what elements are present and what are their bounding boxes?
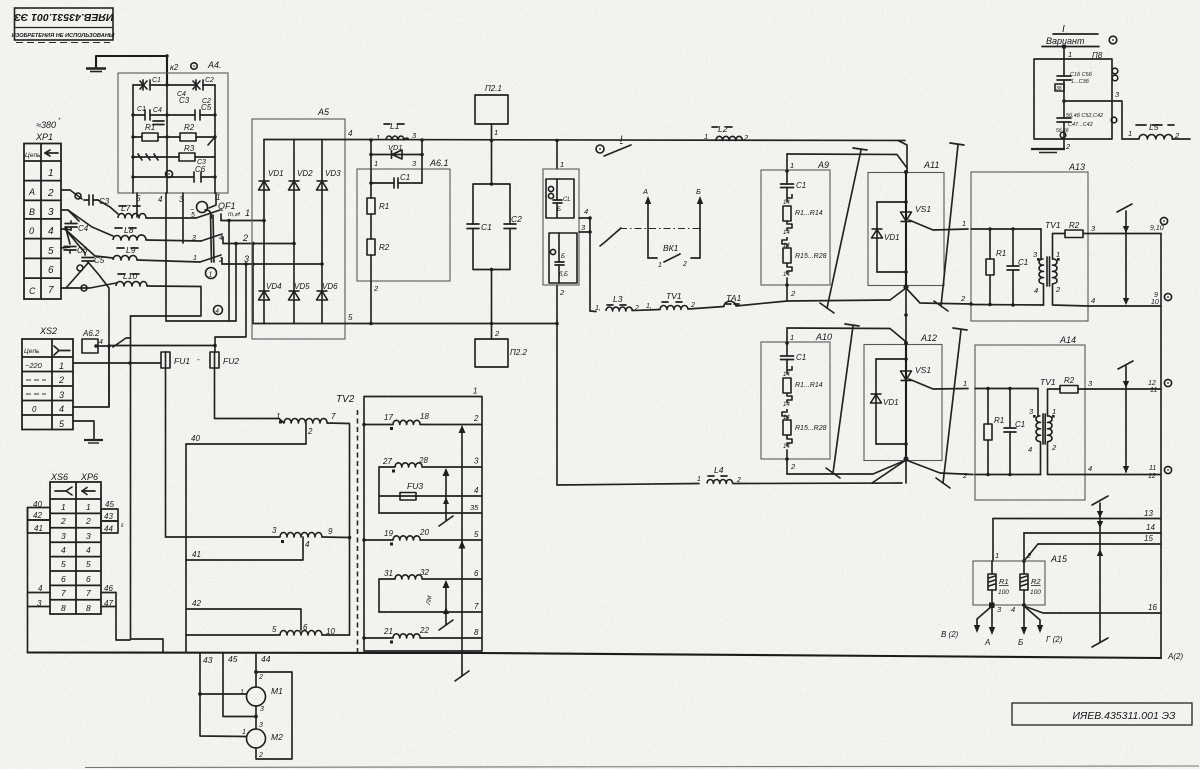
common vertical wire x=186 [185,444,187,653]
right outer wire [116,593,130,641]
svg-text:VD1: VD1 [388,143,403,152]
tap arrow (A15 zone) [1092,496,1108,647]
TV2 core dashed [357,410,359,652]
svg-text:3: 3 [192,235,196,242]
top bus corner into A11 [898,141,907,173]
svg-text:44: 44 [261,654,271,664]
svg-text:VD2: VD2 [297,169,313,178]
A5 rails and columns [264,140,347,324]
resistor R1...R14 (A9) [783,206,791,221]
svg-text:А15: А15 [1050,554,1068,564]
svg-text:10: 10 [1151,299,1159,306]
wires QF1 poles down to fuses [166,221,265,353]
svg-text:R1: R1 [145,123,155,132]
svg-text:С4: С4 [78,224,89,233]
variant mark near bus [596,145,604,153]
svg-text:44: 44 [104,525,113,534]
fuse FU1 [161,352,170,368]
resistor R1 (A14) [987,389,989,425]
svg-text:Б: Б [696,187,701,196]
svg-text:А9: А9 [817,160,829,170]
resistor R3 (A4) [167,153,215,161]
svg-text:1: 1 [1128,129,1132,138]
svg-text:2: 2 [258,674,263,681]
fuse FU2 [210,352,219,368]
svg-text:16: 16 [1148,603,1157,612]
svg-text:1: 1 [245,208,250,218]
ground (P8) [1063,139,1065,149]
svg-text:1: 1 [376,133,380,142]
svg-text:3: 3 [59,390,64,400]
wire XP1 pin3 [61,210,79,221]
wire pin3 to L8 [68,210,113,236]
svg-text:R15...R28: R15...R28 [795,425,827,432]
dc- bus to the right [347,323,557,325]
wire XP1 pin2 [61,190,82,199]
resistor R2 (A13) [1053,284,1089,306]
diagonal up to A11 cathode junction [890,288,906,300]
svg-text:С5: С5 [94,256,105,265]
wire L8 to QF1 pole2 [146,240,201,241]
svg-text:ТV1: ТV1 [1045,220,1061,230]
A14 pin1 rail [975,388,1038,390]
svg-text:Б: Б [561,254,565,260]
svg-text:VD1: VD1 [883,398,899,407]
resistor R1 (A6.1) [367,198,375,214]
svg-text:3: 3 [86,531,91,541]
capacitor C6 (A4 bottom) [133,172,215,182]
svg-text:3: 3 [474,457,479,466]
svg-text:С47...С42: С47...С42 [1068,122,1093,128]
svg-text:14: 14 [783,230,790,236]
wire 130 vertical down to bus [131,316,164,653]
top link A9 to A11 [787,154,907,168]
svg-text:14: 14 [783,444,790,450]
svg-text:2: 2 [85,516,91,526]
svg-text:1: 1 [995,551,999,560]
svg-text:2: 2 [373,284,379,293]
svg-text:2: 2 [242,233,248,243]
svg-text:VD1: VD1 [884,233,900,242]
capacitor C6 [64,247,76,254]
svg-text:31: 31 [384,569,393,578]
switch BK1 block [645,196,651,229]
svg-text:9: 9 [328,527,333,536]
svg-text:R2: R2 [1031,577,1041,586]
svg-text:А10: А10 [815,332,832,342]
svg-text:ИЯЕВ.435311.001 ЭЗ: ИЯЕВ.435311.001 ЭЗ [1073,710,1176,722]
svg-text:1: 1 [209,272,213,279]
A14 outputs [1085,388,1161,390]
svg-text:С1: С1 [481,222,492,232]
svg-text:5: 5 [191,212,195,219]
svg-text:1: 1 [1068,50,1072,59]
svg-text:45: 45 [105,500,114,509]
resistor R2 (A4) [167,133,215,145]
svg-text:4: 4 [1091,296,1095,305]
A10 pin1 + top link to A12 [786,328,788,356]
left long vertical x=557 [556,141,558,170]
svg-text:С2: С2 [511,214,522,224]
wire C3 to L7 [98,200,118,214]
circuit breaker QF1 [197,202,208,213]
tap arrow 1 (long, x=462) [455,425,469,681]
svg-text:1: 1 [276,412,280,421]
L4 bus link up to A12 cathode [872,460,906,483]
svg-text:2: 2 [1065,142,1071,151]
svg-text:100: 100 [1030,589,1041,596]
wire winding5 left lead [186,634,280,636]
node marker [75,193,81,199]
svg-text:14: 14 [783,200,790,206]
svg-text:R1: R1 [379,202,389,211]
svg-text:R2: R2 [379,243,390,252]
wire XS2 row5 to ground [73,421,94,439]
scan edge artifact (bottom) [85,766,1199,768]
tap arrow 2 (FU3, x=446) [439,468,453,526]
svg-text:41: 41 [34,524,43,533]
svg-text:VD6: VD6 [322,282,338,291]
svg-text:L8: L8 [124,225,134,235]
svg-text:4: 4 [1088,464,1092,473]
A4 capacitor row 2 (y=115) C1 C4 [133,110,215,120]
svg-text:4: 4 [158,195,163,204]
svg-text:L3: L3 [613,294,623,304]
svg-text:1...С3б: 1...С3б [1071,79,1090,85]
svg-text:R2: R2 [184,123,195,132]
svg-text:35: 35 [470,503,479,512]
svg-text:3: 3 [61,531,66,541]
svg-text:FU3: FU3 [407,481,423,491]
svg-text:L7: L7 [121,203,131,213]
A9 pin1 wire from top link [786,154,788,184]
wire M1-M2 link [255,706,257,729]
resistor R1 (A13) [989,229,991,259]
svg-text:R1: R1 [996,249,1006,258]
A4 pin stubs [137,193,216,321]
svg-text:2: 2 [1055,285,1061,294]
svg-text:5б,6б: 5б,6б [1056,128,1069,134]
svg-text:4: 4 [38,584,43,593]
capacitor block C1 C2 [491,141,493,185]
svg-text:8: 8 [61,603,66,613]
left outer wire to bus [27,508,29,653]
svg-text:С1: С1 [400,173,410,182]
svg-text:22: 22 [419,626,429,635]
svg-text:1: 1 [962,219,966,228]
motor M1 [247,687,266,706]
svg-text:R1: R1 [994,416,1004,425]
hook [787,263,792,274]
svg-text:3б: 3б [1056,86,1062,92]
svg-text:5: 5 [86,559,91,569]
svg-text:1: 1 [1056,250,1060,259]
svg-text:FU1: FU1 [174,356,190,366]
svg-text:4: 4 [1011,605,1015,614]
svg-text:3: 3 [259,722,263,729]
svg-text:6: 6 [86,574,91,584]
svg-text:43: 43 [203,655,213,665]
wire L9 to QF1 pole3 [137,260,200,262]
svg-text:ХР6: ХР6 [80,472,98,482]
top bus from A5 pin4 [345,140,905,141]
ground (top-left near A4) [86,56,167,72]
svg-text:2: 2 [1051,443,1057,452]
svg-text:С1: С1 [152,77,161,84]
svg-text:ВК1: ВК1 [663,243,679,253]
svg-text:2: 2 [790,289,796,298]
svg-text:15: 15 [1144,534,1153,543]
svg-text:4: 4 [59,404,64,414]
A4 hatched line [133,154,167,160]
A6.1 pin wires [371,140,422,198]
gate bus L3 TV1 TA1 [590,310,596,313]
svg-text:≈380: ≈380 [36,120,56,130]
svg-text:2: 2 [307,427,313,436]
svg-text:СL: СL [563,197,571,203]
A9 pin2 [786,278,788,301]
svg-text:2: 2 [258,752,263,759]
svg-text:14: 14 [783,372,790,378]
wire A6.2 to switch [98,345,109,347]
svg-text:1: 1 [790,333,794,342]
svg-text:4: 4 [219,235,223,242]
capacitor C1 (A14) [1009,389,1011,429]
wire XS2 row4 to A6.2 line [73,406,109,408]
svg-text:2: 2 [790,462,796,471]
wire stem into A4 (k2) [166,56,168,85]
svg-text:VD1: VD1 [268,169,284,178]
tie bar 1 [820,148,867,313]
svg-text:4: 4 [348,129,353,138]
svg-text:6: 6 [303,623,308,632]
svg-text:1: 1 [790,161,794,170]
wire L10 right end down [131,286,202,316]
svg-text:6: 6 [474,569,479,578]
title box [1012,703,1192,725]
svg-text:11: 11 [1150,387,1157,394]
svg-text:2: 2 [60,516,66,526]
block P2.2 [491,324,493,340]
svg-text:R2: R2 [1069,221,1080,230]
capacitor C4 [65,221,77,230]
resistor R1 (A15) 100 [991,561,993,574]
tie bar 4 [936,328,967,488]
svg-text:14: 14 [783,402,790,408]
A4 junction dots [131,54,216,178]
A15 pin3 outputs [989,603,995,609]
svg-text:А12: А12 [920,333,937,343]
svg-text:В (2): В (2) [941,630,959,639]
svg-text:FU2: FU2 [223,356,239,366]
svg-text:100: 100 [998,589,1009,596]
svg-text:С6: С6 [195,165,206,174]
upper sub-box [546,179,574,218]
phase input junction dots [262,219,324,266]
svg-text:А5: А5 [317,107,330,117]
wire XP1 pin7 [61,263,116,288]
svg-text:т,⇄: т,⇄ [228,211,241,218]
capacitor group C37...C42 [1057,101,1071,139]
svg-text:4: 4 [99,339,103,346]
svg-text:R1...R14: R1...R14 [795,210,823,217]
motor M2 [247,729,266,748]
svg-text:3: 3 [48,207,54,218]
svg-text:4: 4 [474,486,479,495]
svg-text:2: 2 [494,329,500,338]
svg-text:12: 12 [1148,380,1156,387]
svg-text:С1: С1 [796,181,806,190]
output labels 9,10 [1160,217,1167,224]
bottom main bus [28,653,1162,659]
svg-text:С4: С4 [153,107,162,114]
svg-text:1,: 1, [595,305,601,312]
svg-text:12: 12 [1148,473,1156,480]
svg-text:П2.1: П2.1 [485,84,502,93]
stub 42 [28,508,51,521]
svg-text:2: 2 [559,288,565,297]
svg-text:5б,4б С52,С42: 5б,4б С52,С42 [1066,113,1103,119]
capacitor group C1...C36 [1057,76,1071,101]
resistor R15...R28 (A9) [783,248,791,263]
svg-text:L4: L4 [714,465,724,475]
lower sub-box [549,233,577,283]
svg-text:А: А [642,187,648,196]
circled mark G [214,306,223,315]
stamp box top-left [12,8,115,43]
tie bar 2 [934,143,964,311]
svg-text:1: 1 [374,159,378,168]
svg-text:Г (2): Г (2) [1046,635,1063,644]
svg-text:1: 1 [473,387,477,396]
svg-text:9,10: 9,10 [1150,225,1164,232]
wire pin4 down to wire 41 [186,537,303,560]
A13 outputs [1088,233,1161,235]
svg-text:А: А [984,638,990,647]
svg-text:13: 13 [1144,509,1153,518]
svg-text:С6: С6 [77,246,88,255]
svg-text:L5: L5 [1149,122,1159,132]
svg-text:0: 0 [29,226,34,236]
capacitor C1 (A6.1) [371,178,422,188]
svg-text:5: 5 [474,530,479,539]
svg-text:L2: L2 [718,124,728,134]
cathode junction (A11) [903,284,908,289]
A14 pin2 rail [975,474,1041,476]
svg-text:42: 42 [33,511,42,520]
svg-text:2: 2 [962,471,968,480]
svg-text:14: 14 [1146,523,1155,532]
svg-text:М2: М2 [271,732,283,742]
L4 bus [557,484,699,486]
block P8 [1062,45,1066,49]
svg-text:45: 45 [228,654,238,664]
filter pins 4 and 3 [579,218,590,232]
svg-text:С3: С3 [179,96,190,105]
wire XP1 pin5 [61,247,70,248]
svg-text:5: 5 [61,559,66,569]
svg-text:21: 21 [383,627,393,636]
svg-text:Цепь: Цепь [24,348,40,355]
svg-text:С1: С1 [1015,420,1025,429]
capacitor C3 [84,195,98,205]
svg-text:1: 1 [560,160,564,169]
svg-text:1: 1 [658,262,662,269]
svg-text:ИЯЕВ.43531.001 ЭЗ: ИЯЕВ.43531.001 ЭЗ [14,11,114,23]
P8 side marks [1112,68,1118,74]
svg-text:VD3: VD3 [325,169,341,178]
tap arrow 3 (31-32, x=446) [439,580,453,630]
svg-text:С1: С1 [1018,258,1028,267]
A4 capacitor C4/C3 center [153,121,164,125]
svg-text:4: 4 [48,226,54,237]
svg-text:R2: R2 [1064,376,1075,385]
wire 16 [1024,606,1161,613]
svg-text:6: 6 [61,574,66,584]
hook [787,221,792,231]
wire winding1 right to common vertical [327,423,350,635]
svg-text:R1...R14: R1...R14 [795,382,823,389]
svg-text:М1: М1 [271,686,283,696]
svg-text:17: 17 [384,413,393,422]
svg-text:9: 9 [1154,292,1158,299]
stub 41 [28,520,51,533]
A10 pin2 [786,450,788,474]
svg-text:П2.2: П2.2 [510,348,527,357]
svg-text:С1: С1 [796,353,806,362]
A13 pin1 rail [971,228,1041,230]
svg-text:1: 1 [704,132,708,141]
svg-text:А4.: А4. [207,60,222,70]
resistor R15...R28 (A10) [783,420,791,435]
svg-text:11: 11 [1149,465,1156,472]
svg-text:ИЗОБРЕТЕНИЯ НЕ ИСПОЛЬЗОВАНЫ: ИЗОБРЕТЕНИЯ НЕ ИСПОЛЬЗОВАНЫ [12,33,115,39]
A13 pin2 rail [971,304,1044,307]
wire 13 [993,518,1161,520]
diode VD1 freewheel [371,154,422,156]
svg-text:3: 3 [272,526,277,535]
svg-text:Б: Б [1018,638,1023,647]
svg-text:46: 46 [104,584,113,593]
svg-text:14: 14 [783,272,790,278]
svg-text:С2: С2 [205,77,214,84]
svg-text:С5: С5 [201,103,212,112]
wire pin3 down to gate bus [589,232,591,311]
svg-text:4: 4 [86,545,91,555]
svg-text:1: 1 [59,361,64,371]
A4 internal verticals [133,85,215,193]
svg-text:L9: L9 [126,245,136,255]
svg-text:L1: L1 [390,121,400,131]
node XP1 pin4 fan [61,229,113,406]
svg-text:1: 1 [240,689,244,696]
tie bar 3 [826,324,859,478]
svg-text:R3: R3 [184,144,195,153]
svg-text:1: 1 [697,476,701,483]
svg-text:R1: R1 [999,577,1009,586]
svg-text:ХР1: ХР1 [35,132,53,142]
svg-text:б,Б: б,Б [559,272,568,278]
svg-text:С1: С1 [137,106,146,113]
svg-text:8: 8 [474,628,479,637]
svg-text:С1б С5б: С1б С5б [1070,72,1093,78]
wire FU2 down to TV2 winding 1 [215,368,285,423]
svg-text:41: 41 [192,550,201,559]
svg-text:А(2): А(2) [1167,652,1183,661]
svg-text:Б: Б [557,207,561,213]
svg-text:2: 2 [682,261,687,268]
wire 15 [1038,543,1161,545]
